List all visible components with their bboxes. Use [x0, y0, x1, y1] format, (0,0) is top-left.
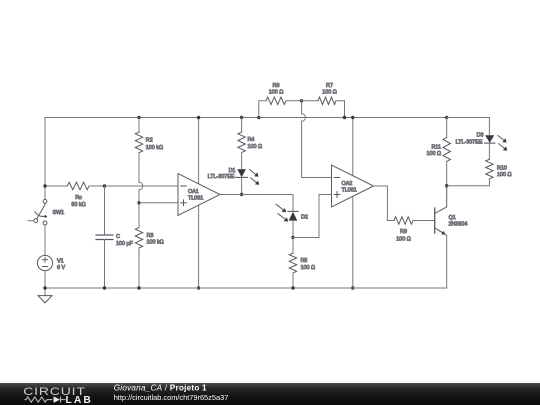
svg-text:D2: D2: [301, 214, 308, 220]
node : top of x=352.8 wire: [351, 116, 354, 119]
svg-text:R9: R9: [400, 229, 407, 235]
svg-text:C: C: [116, 234, 120, 240]
resistor R11: [446, 118, 448, 138]
node : R11 / R10 / Q1 collector: [445, 184, 448, 187]
svg-text:100 Ω: 100 Ω: [248, 144, 263, 150]
node : R7 right leg: [343, 116, 346, 119]
resistor Rc: [67, 182, 89, 189]
resistor R9: [394, 217, 413, 224]
svg-text:LAB: LAB: [66, 395, 93, 405]
svg-text:100 Ω: 100 Ω: [497, 172, 512, 178]
wire : top rail: [45, 117, 489, 119]
svg-text:TL081: TL081: [342, 188, 357, 194]
svg-text:R6: R6: [273, 83, 280, 89]
LED D3 emission arrows: [498, 136, 504, 141]
svg-text:100 Ω: 100 Ω: [322, 89, 337, 95]
svg-text:100 Ω: 100 Ω: [301, 265, 316, 271]
resistor R7: [302, 100, 318, 102]
node : capacitor C top tap: [103, 184, 106, 187]
voltage source V1: [37, 255, 52, 270]
svg-text:6 V: 6 V: [57, 265, 65, 271]
wire : R2 bottom to hop: [138, 153, 140, 183]
node : C bottom: [103, 286, 106, 289]
wire : OA1 output: [220, 194, 293, 196]
node : R6 left leg: [257, 116, 260, 119]
svg-text:100 Ω: 100 Ω: [426, 151, 441, 157]
node : R11 top: [445, 116, 448, 119]
wire : to OA1 non-inverting input: [139, 202, 178, 204]
switch SW1: [43, 199, 47, 203]
resistor R2: [138, 118, 140, 133]
resistor R3: [135, 228, 142, 249]
node : D2 anode / R5 / OA2 + tap: [291, 236, 294, 239]
svg-text:LTL-307EE: LTL-307EE: [456, 140, 483, 146]
LED D1: [237, 169, 246, 177]
resistor R4: [241, 118, 243, 133]
ground: [38, 296, 52, 303]
wire : D2 node to OA2 non-inverting input: [293, 195, 332, 238]
node : left rail / Rc tap: [43, 184, 46, 187]
transistor Q1: [434, 208, 436, 233]
svg-text:Q1: Q1: [449, 215, 456, 221]
node : bottom of x=352.8 wire: [351, 286, 354, 289]
svg-text:100 kΩ: 100 kΩ: [146, 145, 163, 151]
node : R5 bottom: [291, 286, 294, 289]
wire : bottom rail: [45, 287, 447, 289]
op-amp OA2: [332, 165, 374, 207]
node : bottom of x=198.6 wire: [197, 286, 200, 289]
svg-text:60 kΩ: 60 kΩ: [71, 202, 85, 208]
photodiode D2: [288, 210, 298, 212]
wire : vertical pass-through net at x=198.6: [198, 118, 200, 289]
svg-text:Rc: Rc: [75, 195, 82, 201]
svg-text:100 µF: 100 µF: [116, 241, 134, 247]
svg-text:V1: V1: [57, 258, 64, 264]
node : R4 top: [240, 116, 243, 119]
svg-text:LTL-307EE: LTL-307EE: [208, 174, 235, 180]
svg-text:100 Ω: 100 Ω: [269, 89, 284, 95]
svg-text:R5: R5: [301, 258, 308, 264]
svg-text:R11: R11: [432, 145, 442, 151]
wire : Rc to OA1 inverting input: [89, 185, 178, 187]
LED D1 emission arrows: [250, 170, 256, 175]
resistor R10: [488, 143, 490, 159]
wire : SW1 to V1: [44, 225, 46, 255]
svg-text:R10: R10: [497, 165, 507, 171]
svg-text:SW1: SW1: [53, 210, 65, 216]
svg-text:2N3904: 2N3904: [449, 222, 468, 228]
wire : hop over Rc wire at (139,186): [139, 182, 143, 190]
svg-text:R3: R3: [147, 233, 154, 239]
wire : left rail upper: [44, 118, 46, 200]
svg-text:R7: R7: [326, 83, 333, 89]
wire : V1 to ground node: [44, 271, 46, 296]
wire : vertical pass-through net at x=352.8: [352, 118, 354, 289]
node : V1 / ground: [43, 286, 46, 289]
photodiode D2 incident light arrows: [276, 204, 283, 210]
node : R3 bottom: [137, 286, 140, 289]
svg-text:D3: D3: [477, 132, 484, 138]
svg-text:Giovana_CA / Projeto 1: Giovana_CA / Projeto 1: [114, 384, 207, 393]
wire : OA2 output down to R9: [374, 186, 395, 221]
resistor R5: [292, 238, 294, 254]
svg-text:OA1: OA1: [188, 189, 199, 195]
resistor R6: [259, 101, 266, 118]
svg-text:TL081: TL081: [188, 195, 203, 201]
op-amp OA1: [178, 174, 220, 216]
svg-text:http://circuitlab.com/cht79r65: http://circuitlab.com/cht79r65z5a37: [114, 393, 229, 402]
node : D1 cathode on OA1 output: [240, 193, 243, 196]
wire : top rail corner down to D3: [447, 118, 490, 135]
wire : junction to OA2 inverting input with hop: [301, 101, 303, 114]
node : top of x=198.6 wire: [197, 116, 200, 119]
node : R2 top: [137, 116, 140, 119]
capacitor C: [104, 186, 106, 235]
node : R3 top / OA1 + tap: [137, 201, 140, 204]
svg-text:R2: R2: [146, 138, 153, 144]
LED D3: [485, 135, 494, 143]
svg-text:OA2: OA2: [342, 181, 353, 187]
svg-text:R4: R4: [248, 137, 255, 143]
wire : Rc input segment: [45, 185, 67, 187]
node : R6/R7 junction: [300, 99, 303, 102]
svg-text:100 kΩ: 100 kΩ: [147, 240, 164, 246]
svg-text:100 Ω: 100 Ω: [396, 236, 411, 242]
